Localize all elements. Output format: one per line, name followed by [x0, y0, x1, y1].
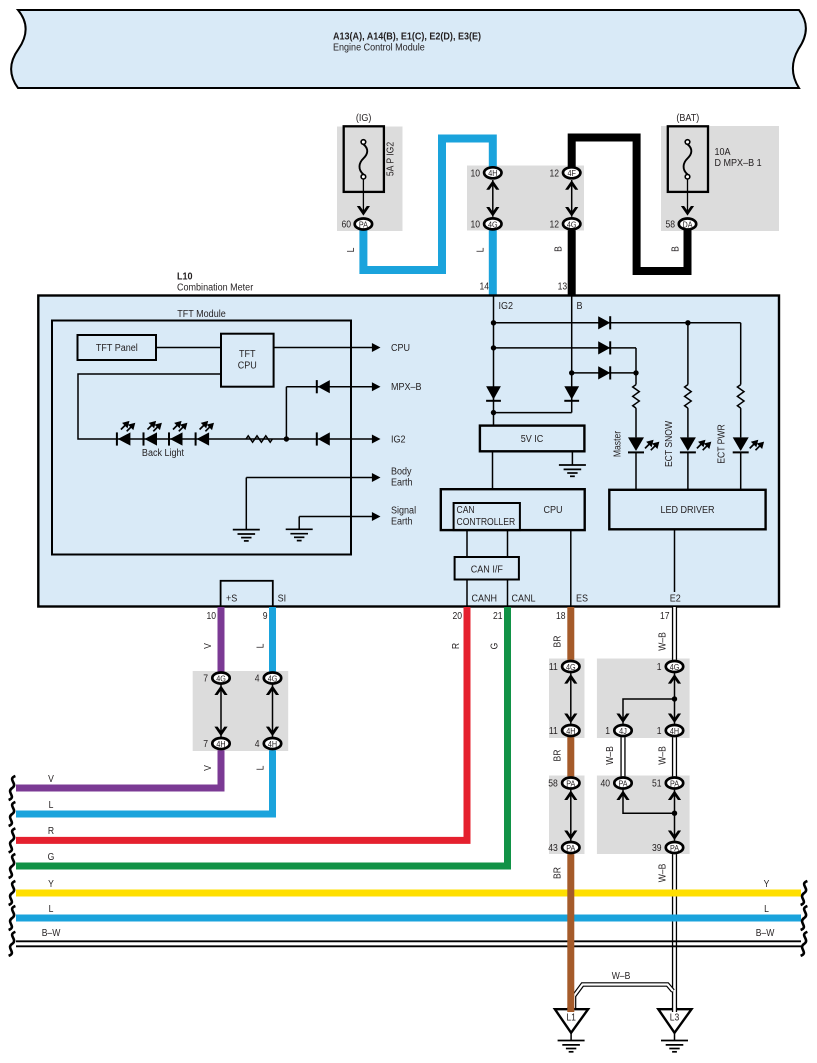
connector 11 4G: [549, 661, 580, 672]
connector 1 4J: [605, 725, 631, 736]
resistor ect pwr: [737, 385, 744, 409]
svg-text:IG2: IG2: [499, 300, 514, 312]
wire G green: [16, 607, 508, 866]
svg-text:CAN I/F: CAN I/F: [471, 564, 503, 576]
LED driver box: [609, 490, 765, 530]
svg-text:4G: 4G: [670, 662, 680, 672]
svg-text:9: 9: [263, 610, 268, 621]
wire W-B branch to L1: [574, 985, 673, 1010]
svg-text:TFT: TFT: [239, 348, 256, 360]
connector 4 4G: [255, 673, 281, 684]
svg-text:11: 11: [549, 661, 558, 672]
wire 5VIC to CPU: [492, 451, 494, 489]
gray zone connectors 4H/4G/4F/4G: [467, 166, 584, 231]
svg-text:(IG): (IG): [356, 112, 372, 124]
fuse BAT box: [668, 126, 708, 215]
svg-text:10: 10: [206, 610, 216, 621]
ground body earth: [233, 478, 260, 541]
svg-text:B: B: [577, 300, 583, 312]
svg-text:4H: 4H: [488, 169, 498, 179]
gray zone connectors brown upper: [549, 659, 585, 739]
svg-text:B: B: [553, 246, 564, 252]
wire B black pin13: [572, 138, 688, 272]
wire BR brown ES: [567, 607, 574, 660]
continuation squiggles right: [801, 881, 808, 905]
combination meter box L10: [38, 296, 779, 607]
svg-text:5V IC: 5V IC: [521, 433, 544, 445]
link arrows brown 4G-4H: [564, 673, 577, 724]
svg-text:D MPX–B 1: D MPX–B 1: [715, 157, 762, 169]
svg-text:Earth: Earth: [391, 516, 413, 528]
connector 7 4H: [203, 738, 229, 749]
wires I/F to pins: [466, 580, 468, 607]
node B vertical: [494, 296, 580, 413]
svg-text:Combination Meter: Combination Meter: [177, 282, 254, 294]
svg-text:V: V: [202, 764, 213, 770]
node IG2 vertical: [486, 296, 501, 426]
svg-text:12: 12: [549, 168, 559, 179]
wire junction up: [285, 387, 287, 439]
backlight LED 3: [169, 422, 186, 446]
svg-text:B–W: B–W: [756, 927, 775, 938]
link arrows 4H-4G: [486, 180, 499, 217]
ground 5V IC: [559, 451, 586, 476]
svg-text:TFT Panel: TFT Panel: [96, 342, 138, 354]
connector 58 DA: [665, 219, 696, 230]
svg-text:DA: DA: [682, 220, 693, 230]
wire V purple: [218, 607, 225, 672]
svg-text:PA: PA: [566, 779, 576, 789]
svg-text:L1: L1: [566, 1012, 576, 1023]
svg-text:21: 21: [493, 610, 503, 621]
connector 51 PA: [652, 778, 683, 789]
svg-text:20: 20: [452, 610, 462, 621]
svg-text:LED DRIVER: LED DRIVER: [660, 504, 714, 516]
svg-text:58: 58: [665, 219, 675, 230]
diode IG2 row: [317, 432, 330, 445]
svg-text:18: 18: [556, 610, 566, 621]
svg-text:11: 11: [549, 725, 558, 736]
node backlight junction: [284, 436, 289, 441]
svg-text:R: R: [450, 643, 461, 649]
links right column lower: [616, 790, 681, 841]
backlight LED 4: [196, 422, 213, 446]
svg-text:7: 7: [203, 673, 208, 684]
svg-text:W–B: W–B: [657, 746, 668, 765]
LED ect pwr: [733, 408, 763, 490]
link arrows blue 4G-4H: [266, 685, 279, 738]
svg-text:L: L: [255, 644, 266, 649]
connector 10 4G: [470, 218, 501, 229]
backlight LED 2: [144, 422, 161, 446]
svg-text:1: 1: [657, 725, 662, 736]
svg-text:W–B: W–B: [657, 632, 668, 651]
wire body earth: [246, 473, 380, 482]
ground L1: [555, 1007, 588, 1052]
wires controller to I/F: [466, 530, 468, 557]
connector 4 4H: [255, 738, 281, 749]
wire E2: [674, 529, 676, 592]
svg-text:ES: ES: [576, 593, 588, 605]
svg-text:G: G: [489, 643, 500, 650]
connector 12 4F: [549, 167, 580, 178]
wire B-W double: [16, 941, 801, 946]
diode MPX-B: [286, 380, 380, 393]
CPU box: [441, 489, 585, 530]
svg-text:L: L: [764, 903, 769, 914]
svg-text:12: 12: [549, 219, 559, 230]
wire backlight loop: [78, 374, 221, 439]
connector 1 4H: [657, 725, 683, 736]
svg-text:V: V: [48, 773, 54, 784]
diode row3: [572, 366, 639, 379]
gray zone connectors below meter left: [193, 671, 289, 751]
svg-text:10: 10: [470, 168, 480, 179]
svg-text:Y: Y: [764, 878, 770, 889]
connector 7 4G: [203, 673, 229, 684]
svg-text:CONTROLLER: CONTROLLER: [457, 516, 516, 527]
wire L blue pin14: [363, 139, 492, 271]
svg-text:BR: BR: [552, 749, 563, 761]
svg-text:7: 7: [203, 738, 208, 749]
svg-text:43: 43: [548, 842, 558, 853]
svg-text:4F: 4F: [567, 169, 576, 179]
wire R red: [16, 607, 467, 840]
resistor ect snow: [685, 385, 692, 409]
svg-text:CPU: CPU: [543, 504, 562, 516]
LED ect snow: [680, 408, 710, 490]
resistor master: [633, 385, 640, 409]
svg-text:BR: BR: [552, 635, 563, 647]
gray zone fuse IG: [337, 127, 403, 232]
wire L blue SI: [269, 607, 276, 672]
connector 58 PA: [548, 778, 579, 789]
svg-text:40: 40: [600, 778, 610, 789]
svg-text:1: 1: [657, 661, 662, 672]
CAN controller box: [454, 503, 520, 530]
svg-text:4G: 4G: [567, 220, 577, 230]
svg-text:14: 14: [479, 281, 489, 292]
svg-text:39: 39: [652, 842, 662, 853]
svg-text:4J: 4J: [619, 726, 627, 736]
svg-text:L: L: [345, 248, 356, 253]
svg-text:PA: PA: [670, 779, 680, 789]
link arrows purple 4G-4H: [214, 685, 227, 738]
svg-text:(BAT): (BAT): [676, 112, 699, 124]
svg-text:60: 60: [341, 219, 351, 230]
wire TFT panel to TFT CPU: [156, 347, 221, 349]
svg-text:10: 10: [470, 219, 480, 230]
svg-text:5A P IG2: 5A P IG2: [385, 142, 396, 176]
svg-text:L3: L3: [670, 1012, 680, 1023]
svg-text:BR: BR: [552, 867, 563, 879]
gray zone connectors brown lower: [549, 776, 585, 855]
CAN I/F box: [455, 557, 519, 580]
svg-text:G: G: [48, 851, 55, 862]
5V IC box: [480, 426, 585, 452]
connector 12 4G: [549, 218, 580, 229]
connector 60 PA: [341, 219, 372, 230]
link arrows brown PA-PA: [564, 790, 577, 841]
svg-text:L: L: [475, 248, 486, 253]
wire TFT CPU to CPU arrow: [274, 343, 381, 352]
svg-text:Engine Control Module: Engine Control Module: [333, 42, 425, 54]
svg-text:ECT SNOW: ECT SNOW: [663, 421, 674, 467]
backlight LED 1: [117, 422, 134, 446]
svg-text:CPU: CPU: [238, 360, 257, 372]
svg-text:4H: 4H: [566, 726, 576, 736]
svg-text:V: V: [202, 642, 213, 648]
svg-text:4H: 4H: [670, 726, 680, 736]
LED master: [628, 408, 658, 490]
svg-text:CANH: CANH: [472, 593, 498, 605]
links right column upper: [616, 673, 681, 724]
connector 43 PA: [548, 842, 579, 853]
wire signal earth: [299, 512, 380, 521]
svg-text:4G: 4G: [488, 220, 498, 230]
svg-text:MPX–B: MPX–B: [391, 382, 422, 394]
wire ES: [570, 530, 572, 606]
svg-text:4H: 4H: [268, 739, 278, 749]
svg-text:51: 51: [652, 778, 662, 789]
svg-text:Y: Y: [48, 878, 54, 889]
svg-text:B: B: [670, 246, 681, 252]
svg-text:4G: 4G: [216, 674, 226, 684]
connector 1 4G: [657, 661, 683, 672]
svg-text:4G: 4G: [268, 674, 278, 684]
gray zone fuse BAT: [661, 126, 779, 231]
svg-text:4H: 4H: [216, 739, 226, 749]
gray zone connectors right upper: [597, 659, 690, 739]
svg-text:1: 1: [605, 725, 610, 736]
gray zone connectors right lower: [597, 776, 690, 855]
wire W-B vertical E2: [623, 607, 675, 1012]
ECM banner ribbon: [11, 10, 806, 88]
svg-text:58: 58: [548, 778, 558, 789]
svg-text:Master: Master: [612, 431, 623, 457]
svg-text:E2: E2: [670, 593, 681, 605]
svg-text:4G: 4G: [566, 662, 576, 672]
svg-text:B–W: B–W: [42, 927, 61, 938]
svg-text:PA: PA: [359, 220, 369, 230]
ground signal earth: [286, 517, 313, 541]
svg-text:L: L: [255, 766, 266, 771]
wire master column top: [635, 348, 637, 385]
svg-text:SI: SI: [278, 593, 287, 605]
svg-text:CAN: CAN: [457, 504, 475, 515]
TFT CPU box: [221, 334, 274, 387]
svg-text:+S: +S: [226, 593, 238, 605]
svg-text:PA: PA: [670, 843, 680, 853]
wire L blue lower: [16, 915, 801, 922]
wire IG2 row: [103, 435, 381, 444]
connector 11 4H: [549, 725, 580, 736]
svg-text:13: 13: [558, 281, 568, 292]
svg-text:L: L: [49, 799, 54, 810]
TFT module box: [52, 321, 351, 555]
ground L3: [658, 1007, 691, 1052]
connector 39 PA: [652, 842, 683, 853]
svg-text:W–B: W–B: [657, 864, 668, 883]
fuse IG box: [344, 126, 384, 215]
+S SI pin box: [221, 581, 273, 607]
svg-text:R: R: [48, 825, 54, 836]
svg-text:W–B: W–B: [612, 970, 631, 981]
continuation squiggles left: [9, 776, 16, 800]
svg-text:Earth: Earth: [391, 477, 413, 489]
svg-text:ECT PWR: ECT PWR: [716, 424, 727, 464]
svg-text:CPU: CPU: [391, 342, 410, 354]
wire ect pwr column top: [740, 323, 742, 385]
TFT panel box: [78, 335, 157, 360]
diode row2: [494, 341, 637, 354]
wire Y yellow: [16, 890, 801, 897]
connector 40 PA: [600, 778, 631, 789]
svg-text:W–B: W–B: [604, 746, 615, 765]
link arrows 4F-4G: [565, 180, 578, 217]
svg-text:IG2: IG2: [391, 434, 406, 446]
svg-text:17: 17: [660, 610, 670, 621]
svg-text:4: 4: [255, 738, 260, 749]
svg-text:L: L: [49, 903, 54, 914]
svg-text:4: 4: [255, 673, 260, 684]
svg-text:PA: PA: [566, 843, 576, 853]
resistor backlight: [246, 436, 272, 442]
connector 10 4H: [470, 167, 501, 178]
svg-text:PA: PA: [618, 779, 628, 789]
diode row1: [494, 316, 741, 329]
svg-text:Back Light: Back Light: [142, 447, 184, 459]
svg-text:TFT Module: TFT Module: [177, 308, 225, 320]
wire ect snow column top: [687, 323, 689, 385]
svg-text:CANL: CANL: [512, 593, 537, 605]
